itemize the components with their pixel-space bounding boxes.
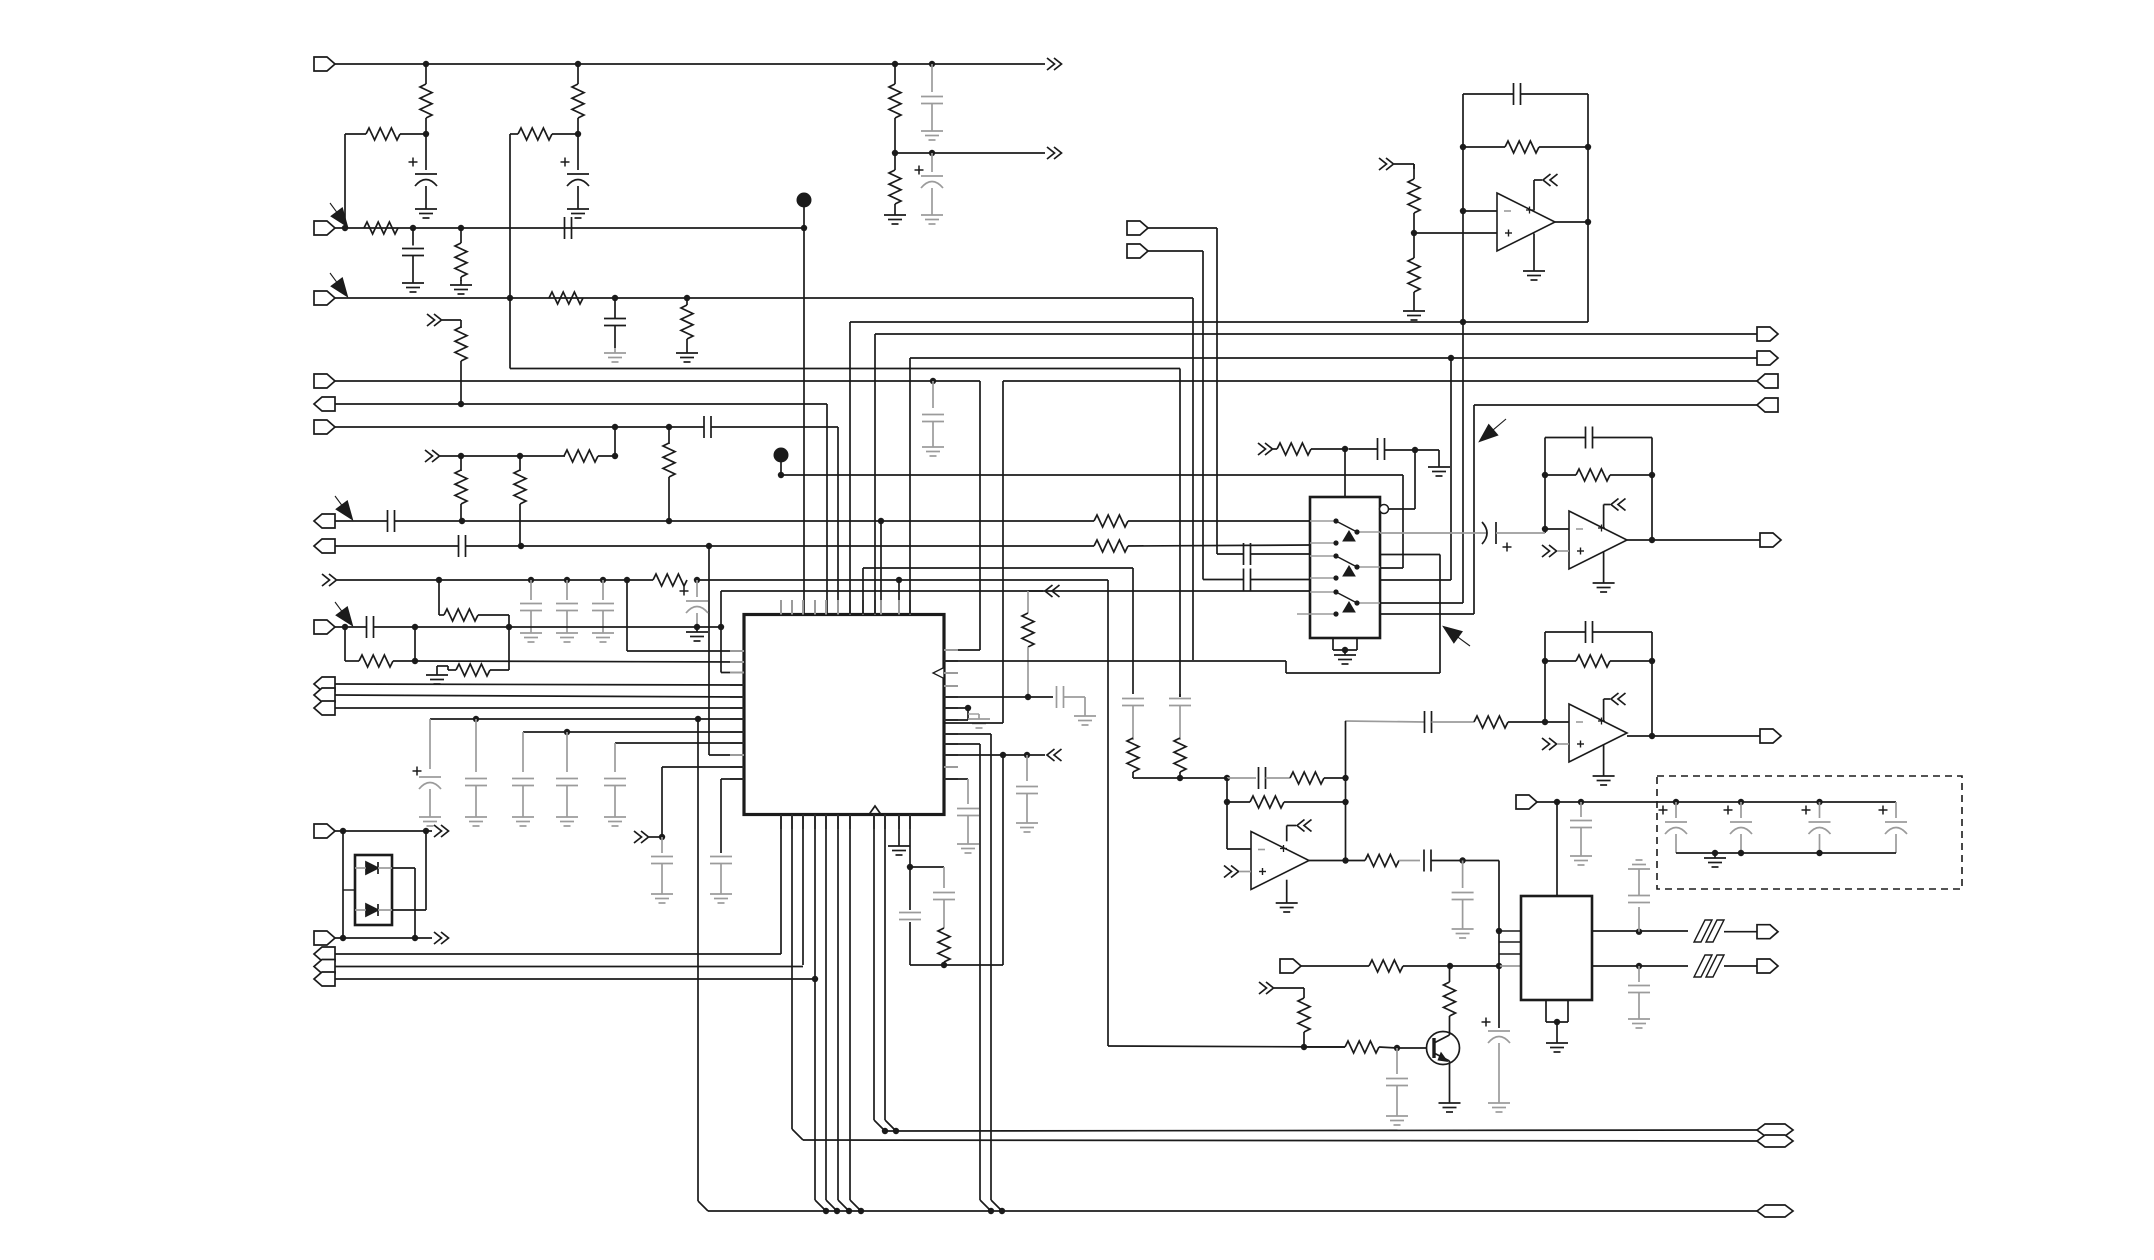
wire U6 gnd stem [1286,880,1288,898]
connector J28 output [1757,959,1778,973]
IC left pin stub y685 [730,684,744,686]
node bank x1715 [1712,850,1718,856]
node net580 x567 [564,577,570,583]
off-page >> net938 [434,932,442,944]
wire bubble link [1414,450,1416,509]
wire net427 segment b [711,426,838,428]
op-amp U5 feedback top [1545,631,1586,633]
resistor R11 vertical [460,456,462,471]
capacitor C33 series [1424,711,1426,733]
node R1/R2 junction [423,131,429,137]
wire enable c [1415,449,1439,451]
node net228 x413 [410,225,416,231]
IC right pin stub y686 [944,685,958,687]
off-page >> R9 source [427,314,435,326]
capacitor C4 series [564,217,566,239]
connector J13 input [314,824,335,838]
resistor R32 [1227,801,1250,803]
node rail x1819 [1816,799,1822,805]
op-amp U3 [1497,193,1555,251]
node net521 x669 [666,518,672,524]
cable mark vout1 [1694,920,1712,942]
ground pin899 [898,841,900,846]
wire U6 minus [1227,848,1251,850]
node rail x1676 [1673,799,1679,805]
wire reg left pins [1499,953,1521,955]
wire net427 drop to IC [837,427,839,614]
wire x944 down [943,867,945,888]
bend pin838 [838,1200,849,1211]
ground C18 [566,812,568,817]
capacitor C46 polarized [1802,809,1811,811]
wire vout1 b [1724,931,1757,933]
wire net661 step [1285,661,1287,673]
wire enable to switch top [1344,449,1346,497]
node bus1211 x837 [834,1208,840,1214]
wire vout2 b [1724,965,1757,967]
node base x1397 [1394,1045,1400,1051]
capacitor C19 decoupling [614,743,616,772]
node net64 x932 [929,61,935,67]
hex connector bus1211 [1757,1205,1793,1217]
node U3 output [1585,219,1591,225]
IC bottom pin stub x910 [909,815,911,830]
ground C24 [1026,818,1028,823]
ground U6 [1286,898,1288,903]
node net580 x603 [600,577,606,583]
connector J22 input [1127,221,1148,235]
node net404 x461 [458,401,464,407]
node net755 x1027 [1024,752,1030,758]
IC top pin stub x881 [880,600,882,615]
hex connector bus1140 [1757,1135,1793,1147]
resistor R17 horizontal [653,574,687,586]
connector J11 output [314,688,335,702]
IC bottom pin stub x826 [825,815,827,830]
node net778 x1227 [1224,775,1230,781]
IC bottom pin stub x899 [898,815,900,830]
ground U4 [1603,578,1605,583]
wire x615 to net456 [614,427,616,456]
wire net405 [1474,404,1757,406]
capacitor C29 feedback [1513,83,1515,105]
node U5 minus [1542,719,1548,725]
bend pin850 [850,1200,861,1211]
ground C10 [530,628,532,633]
wire pin744 drop [944,743,980,745]
connector J8 output [314,539,335,553]
node net427 x669 [666,424,672,430]
wire reg top pin [1556,802,1558,896]
capacitor C21 [710,856,732,858]
connector J3 input [314,291,335,305]
wire C27 to switch [1251,579,1311,581]
bend pin744 [980,1200,991,1211]
resistor R36 collector [1444,982,1456,1016]
node bus1131 x896 [893,1128,899,1134]
wire U3 out drop [1462,322,1464,603]
wire net521 c to switch [1128,520,1310,522]
node net298 x615 [612,295,618,301]
wire net334 [874,334,876,614]
transistor Q1 [1427,1032,1460,1065]
ground pins 708-720 [968,713,979,715]
resistor R15 horizontal [1094,540,1128,552]
wire net954 [335,953,781,955]
wire pin885 drop [884,815,886,1121]
transistor Q1 emitter [1434,1053,1450,1061]
node net931 x1499 [1496,928,1502,934]
IC bottom pin stub x885 [884,815,886,830]
ground C5 [614,348,616,353]
wire net368 drop x1180 [1179,369,1181,698]
capacitor C16 decoupling [475,719,477,772]
wire x721 up to net591 [720,591,722,627]
node bus1131 x885 [882,1128,888,1134]
connector J6 input [314,420,335,434]
connector J14 input [314,931,335,945]
node net938 x343 [340,935,346,941]
op-amp U6 [1251,832,1309,890]
switch U2 bubble pin [1380,505,1389,514]
transistor Q1 collector [1434,1035,1450,1043]
wire x343 down [342,831,344,938]
wire net153 [895,152,1045,154]
wire net591 to switch [721,590,1310,592]
IC right pin stub y673 [944,672,958,674]
ground C38 [1462,924,1464,929]
IC bottom pin stub x781 [780,815,782,830]
wire vout2 [1592,965,1688,967]
node net831 x426 [423,828,429,834]
op-amp U3 loop right [1587,94,1589,322]
bend pin826 [826,1200,837,1211]
wire x510 net134 to net368 [509,298,511,369]
wire pin910 drop [909,815,911,911]
ground U2 [1344,650,1346,655]
IC left pin stub y697 [730,696,744,698]
wire net64 [335,63,1045,65]
annotation arrow net627 [337,607,352,625]
node on net64 at x426 [423,61,429,67]
connector J7 output [314,514,335,528]
capacitor C50 series [899,912,921,914]
IC left pin stub y662 [730,661,744,663]
wire U6 fb drop [1226,778,1228,849]
capacitor C43 [1580,802,1582,817]
node net580 x439 [436,577,442,583]
wire enable b [1349,448,1378,450]
capacitor C1 polarized [425,134,427,170]
IC left pin stub y732 [730,731,744,733]
wire vout1 [1592,930,1688,932]
IC bottom pin stub x874 [873,815,875,830]
wire net228b [1148,227,1217,229]
wire enable a [1273,448,1277,450]
connector J12 output [314,701,335,715]
connector J5 output [314,397,335,411]
transistor Q1 base bar [1432,1038,1435,1058]
node net767 cap [659,834,665,840]
resistor R22 horizontal [1277,443,1311,455]
capacitor C37 series [1423,850,1425,872]
resistor R5 horizontal [364,222,398,234]
ground enable [1438,462,1440,467]
node net521 x462 [459,518,465,524]
wire pin815 drop [814,815,816,1201]
node net381 cap tap [930,378,936,384]
wire net966 into reg [1499,965,1521,967]
node net580 x899 [896,577,902,583]
ground C39 [1396,1111,1398,1116]
node R3/R4 junction [575,131,581,137]
wire x1451 to switch [1450,358,1452,580]
off-page >> bias [1259,982,1267,994]
capacitor C30 feedback [1585,427,1587,449]
IC bottom pin stub x838 [837,815,839,830]
resistor R34 vertical [1298,998,1310,1032]
node bus1211 x861 [858,1208,864,1214]
wire net627 b [374,626,698,628]
capacitor C39 base [1396,1048,1398,1074]
op-amp U4 feedback top [1545,437,1586,439]
node U5 output [1649,733,1655,739]
resistor R27 feedback [1545,660,1576,662]
node U3 fb right [1585,144,1591,150]
ground C41 up [1638,869,1640,874]
capacitor C26 series [1243,543,1245,565]
wire x345 down to net228 [344,134,346,228]
wire net546 b [466,545,1095,547]
IC bottom pin stub x815 [814,815,816,830]
wire diode out top [392,867,415,869]
wire net322 [849,322,851,614]
wire diode left stub [343,889,355,891]
capacitor C12 to ground [602,580,604,600]
node net228 at bus x804 [801,225,807,231]
wire net697r to gnd [1064,696,1085,698]
wire U4 minus chain [1380,532,1486,534]
resistor R31 [1290,772,1324,784]
wire net938 [335,937,432,939]
annotation arrow net228 [332,208,347,226]
off-page >> switch enable [1258,443,1266,455]
diode pack D1 body [355,855,392,925]
capacitor C17 decoupling [522,732,524,772]
ground C40 [1498,1098,1500,1103]
IC left pin stub y779 [730,778,744,780]
off-page << net755 [1047,749,1055,761]
off-page >> net153 [1047,147,1055,159]
capacitor C32 feedback [1585,621,1587,643]
ground Q1 emitter [1449,1098,1451,1103]
node on net64 at x578 [575,61,581,67]
ground U5 [1603,771,1605,776]
IC right pin stub y720 [944,719,958,721]
wire U5 minus [1545,721,1569,723]
wire emitter [1449,1061,1451,1098]
wire net580 [337,579,653,581]
resistor R7 horizontal [549,292,583,304]
resistor R33 output [1365,855,1399,867]
wire pin708 ground tie [944,707,968,709]
IC bottom pin stub x850 [849,815,851,830]
IC top pin stub x863 [862,600,864,615]
wire x1440 up [1439,555,1441,674]
capacitor C41 [1638,907,1640,932]
ground C3 [412,278,414,283]
node net521 x881 [878,518,884,524]
resistor R24 vertical [1413,164,1415,179]
node R18 right [412,658,418,664]
test point TP2 [774,448,789,463]
node pin708 [965,705,971,711]
bend pin792 to bus1140 [792,1129,803,1140]
capacitor C22 [933,892,955,894]
wire x509 down to R19 [508,627,510,670]
node net64 x895 [892,61,898,67]
wire U6 output [1309,860,1365,862]
wire net546 a [335,545,459,547]
capacitor C10 to ground [530,580,532,600]
capacitor C38 to ground [1462,861,1464,889]
off-page >> U5 plus [1542,738,1550,750]
wire net743 [615,742,744,744]
ground C2 [577,204,579,209]
connector J23 input [1127,244,1148,258]
resistor R21 vertical [1028,590,1043,592]
IC left pin stub y767 [730,766,744,768]
IC right pin stub y755 [944,754,958,756]
wire x439 down [438,580,440,615]
wire net695 [335,695,744,697]
off-page >> net456 [425,450,433,462]
node bus1211 x1002 [999,1208,1005,1214]
node net456 x520 [517,453,523,459]
op-amp U3 loop left [1462,94,1464,322]
node net580 x627 [624,577,630,583]
resistor R8 to ground [686,298,688,305]
IC right pin stub y697 [944,696,958,698]
wire net404 [335,403,827,405]
connector J9 input [314,620,335,634]
capacitor C15 polarized [429,719,431,769]
node bank x1819 [1816,850,1822,856]
ground C11 [566,628,568,633]
node U3 minus tap [1460,208,1466,214]
wire net580 continuation [899,579,1108,581]
IC top pin stub x826 [825,600,827,615]
node net966 x1499 [1496,963,1502,969]
resistor R2 horizontal [345,133,366,135]
IC top pin stub x815 [814,600,816,615]
capacitor C27 series [1243,569,1245,591]
wire U5 gnd stem [1603,744,1605,771]
wire net732 [523,731,744,733]
wire U4 output [1627,539,1760,541]
ground cap bank [1714,853,1716,858]
capacitor C49 polarized [915,169,924,171]
ground C21 [720,889,722,894]
off-page >> net580 [322,574,330,586]
connector J27 output [1757,925,1778,939]
ground C15 [429,812,431,817]
wire x510 down to net298 [509,134,511,298]
op-amp U5 loop left [1544,632,1546,722]
ground C42 [1638,1014,1640,1019]
wire net381 left segment [335,380,980,382]
wire net427 segment a [335,426,704,428]
node net298 x510 [507,295,513,301]
wire U3 output [1555,221,1588,223]
capacitor C44 polarized [1659,809,1668,811]
wire C37 out [1431,860,1499,862]
connector J16 output [314,960,335,974]
ground C25 [967,839,969,844]
wire net358 [909,358,911,614]
node vout1 x1639 [1636,929,1642,935]
wire U4 minus [1545,528,1569,530]
ground C6 [932,442,934,447]
off-page << U6 power [1297,820,1305,832]
node net627 x415 [412,624,418,630]
node net910 y867 [907,864,913,870]
node TP2 stem [778,472,784,478]
ground C13 [696,627,698,632]
bend pin734 [991,1200,1002,1211]
bus wire y1131 [885,1130,1757,1131]
wire net708 [335,707,744,709]
wire net661 to IC pin662 [415,661,744,662]
annotation arrow switch2 [1444,627,1462,642]
op-amp U5 loop right [1651,632,1653,736]
op-amp U5 [1569,704,1627,762]
wire x627 to IC pin651 [626,580,628,651]
wire U3 plus [1414,232,1497,234]
resistor R39 to ground [894,153,896,170]
node net153 x932 [929,150,935,156]
node enable x1415 [1412,447,1418,453]
wire net381 drop to IC pin 650 [979,381,981,650]
capacitor C40 polarized [1482,1021,1491,1023]
op-amp U4 [1569,511,1627,569]
ground C49 [931,210,933,215]
connector J19 output [1757,327,1778,341]
connector J1 input [314,57,335,71]
wire reg gnd stem [1556,1022,1558,1038]
diode D1a [366,862,378,874]
bend pin815 [815,1200,826,1211]
connector J17 output [314,972,335,986]
node net719 x476 [473,716,479,722]
IC left pin stub y708 [730,707,744,709]
node U4 fb left [1542,472,1548,478]
IC left pin stub y743 [730,742,744,744]
resistor R28 [1474,716,1508,728]
capacitor C28 series [1377,438,1379,460]
connector J4 input [314,374,335,388]
capacitor C11 to ground [566,580,568,600]
node net778 x1180 [1177,775,1183,781]
wire net228 segment [335,227,804,229]
wire net661 [944,660,1286,662]
wire net521 b [395,520,1095,522]
wire x1133 drop [1132,568,1134,694]
wire block bottom [910,964,1003,966]
capacitor C34 [1122,698,1144,700]
off-page << net591r [1045,585,1053,597]
wire pin850 drop [849,815,851,1201]
